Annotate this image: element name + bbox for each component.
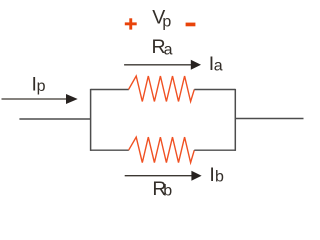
resistor Rb [129,137,195,163]
resistor Ra [129,76,195,102]
wire: top branch right segment [194,89,235,91]
wire: top branch left segment [91,89,129,91]
wire: left input lead [19,118,90,120]
polarity plus [125,18,137,29]
svg-text:b: b [163,183,172,200]
svg-text:I: I [209,164,214,186]
svg-text:b: b [215,169,224,186]
current arrow Ia [124,60,201,70]
current arrow Ip [2,94,78,104]
svg-text:a: a [164,42,173,59]
svg-text:a: a [214,57,223,74]
polarity minus [186,23,196,27]
svg-text:p: p [162,14,171,31]
wire: bottom branch right segment [194,149,235,151]
wire: bottom branch left segment [91,149,129,151]
wire: left junction bar [90,89,92,151]
wire: right output lead [235,118,303,120]
current arrow Ib [125,171,202,181]
svg-text:p: p [37,78,46,95]
wire: right junction bar [234,89,236,151]
